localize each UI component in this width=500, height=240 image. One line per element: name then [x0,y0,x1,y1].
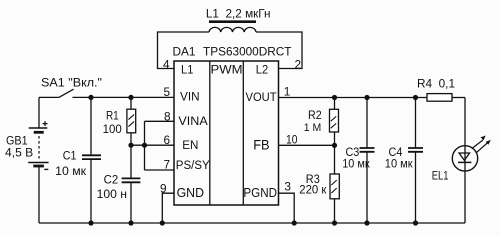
svg-text:10 мк: 10 мк [55,164,87,178]
svg-text:VINA: VINA [178,114,208,128]
svg-text:C2: C2 [104,174,119,186]
svg-text:9: 9 [160,181,167,195]
svg-text:DA1TPS63000DRCT: DA1TPS63000DRCT [173,45,292,59]
svg-text:10 мк: 10 мк [342,157,370,171]
svg-text:PWM: PWM [211,63,243,77]
svg-text:EL1: EL1 [432,168,449,182]
svg-text:VIN: VIN [180,89,200,103]
svg-text:10: 10 [286,132,298,146]
svg-text:R4 0,1: R4 0,1 [417,78,455,90]
svg-text:C1: C1 [63,151,77,163]
svg-text:R1: R1 [106,111,119,123]
svg-text:1 М: 1 М [304,122,322,134]
svg-text:100 н: 100 н [97,187,127,201]
svg-text:4,5 В: 4,5 В [5,147,33,160]
svg-text:GND: GND [177,185,204,200]
svg-text:PGND: PGND [243,185,277,200]
svg-text:2: 2 [295,57,302,71]
svg-text:R2: R2 [308,110,322,122]
svg-text:220 к: 220 к [299,184,327,196]
svg-text:GB1: GB1 [6,135,28,147]
svg-text:100: 100 [103,124,122,136]
svg-text:6: 6 [163,133,170,147]
svg-text:7: 7 [163,157,170,171]
svg-text:L1 2,2 мкГн: L1 2,2 мкГн [206,7,271,21]
svg-text:L2: L2 [256,63,269,77]
svg-text:5: 5 [163,85,170,99]
svg-text:VOUT: VOUT [246,90,278,104]
svg-text:8: 8 [164,109,171,123]
svg-text:1: 1 [284,85,291,99]
svg-text:FB: FB [253,137,269,152]
svg-text:4: 4 [163,57,170,71]
svg-text:SA1 "Вкл.": SA1 "Вкл." [41,76,102,90]
svg-text:L1: L1 [181,63,194,77]
svg-text:PS/SY: PS/SY [176,160,210,172]
svg-text:3: 3 [284,179,291,193]
svg-text:10 мк: 10 мк [385,157,413,171]
svg-text:EN: EN [182,138,198,152]
